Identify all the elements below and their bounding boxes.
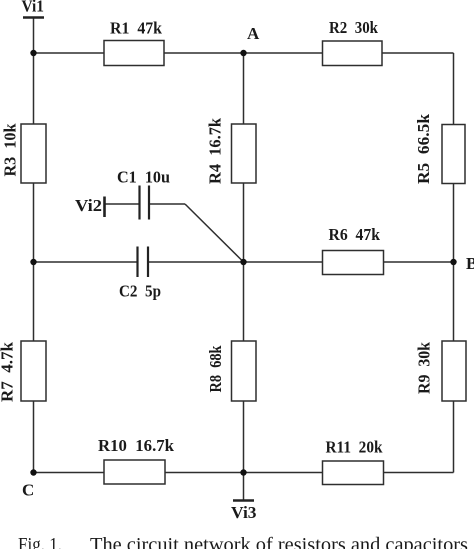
- svg-text:R7 4.7k: R7 4.7k: [0, 341, 17, 402]
- capacitor C2: [119, 247, 161, 301]
- svg-text:A: A: [247, 24, 260, 43]
- resistor R2: [323, 18, 383, 66]
- svg-text:R4 16.7k: R4 16.7k: [206, 117, 225, 184]
- wire C1 right lead: [150, 203, 186, 205]
- junction center: [240, 259, 246, 265]
- svg-text:Vi3: Vi3: [231, 503, 257, 522]
- svg-text:Vi1: Vi1: [22, 0, 45, 16]
- svg-text:C1 10u: C1 10u: [117, 168, 170, 187]
- resistor R4: [206, 117, 257, 184]
- junction left middle: [30, 259, 36, 265]
- node B: [450, 254, 474, 273]
- wire Vi2 to C1: [105, 203, 140, 205]
- svg-text:R9 30k: R9 30k: [415, 341, 434, 394]
- wire left vertical: [33, 18, 35, 473]
- capacitor C1: [117, 168, 170, 220]
- wire center vertical: [243, 53, 245, 473]
- terminal Vi3: [231, 501, 257, 523]
- terminal Vi2: [75, 196, 105, 217]
- svg-text:The circuit network of resisto: The circuit network of resistors and cap…: [90, 534, 468, 549]
- junction top-left: [30, 50, 36, 56]
- resistor R11: [323, 438, 384, 485]
- terminal Vi1: [22, 0, 45, 18]
- wire bottom horizontal: [34, 472, 454, 474]
- caption: [18, 534, 468, 549]
- resistor R10: [98, 436, 175, 484]
- svg-text:R2 30k: R2 30k: [329, 18, 378, 37]
- wire middle horizontal right of C2: [148, 261, 454, 263]
- resistor R3: [1, 123, 47, 183]
- resistor R6: [323, 225, 384, 275]
- resistor R7: [0, 341, 46, 402]
- wire right vertical: [453, 53, 455, 473]
- wire diagonal C1 to center node: [185, 204, 244, 262]
- svg-text:B: B: [466, 254, 474, 273]
- node C: [22, 469, 37, 499]
- svg-text:R10 16.7k: R10 16.7k: [98, 436, 175, 455]
- wire top horizontal: [34, 52, 454, 54]
- resistor R8: [206, 341, 256, 401]
- svg-text:R3 10k: R3 10k: [1, 123, 20, 177]
- wire middle horizontal left of C2: [34, 261, 138, 263]
- junction bottom center: [240, 469, 246, 475]
- node A: [240, 24, 260, 56]
- svg-text:R11 20k: R11 20k: [326, 438, 383, 457]
- svg-text:R6 47k: R6 47k: [329, 225, 381, 244]
- resistor R1: [104, 19, 164, 66]
- resistor R9: [415, 341, 467, 401]
- svg-text:Fig. 1.: Fig. 1.: [18, 534, 62, 549]
- wire Vi3 stub: [243, 473, 245, 501]
- svg-text:C2 5p: C2 5p: [119, 282, 161, 301]
- svg-text:R5 66.5k: R5 66.5k: [414, 113, 433, 184]
- svg-text:C: C: [22, 481, 34, 500]
- svg-text:R8 68k: R8 68k: [206, 345, 225, 392]
- svg-text:Vi2: Vi2: [75, 196, 102, 215]
- resistor R5: [414, 113, 465, 184]
- svg-text:R1 47k: R1 47k: [110, 19, 163, 38]
